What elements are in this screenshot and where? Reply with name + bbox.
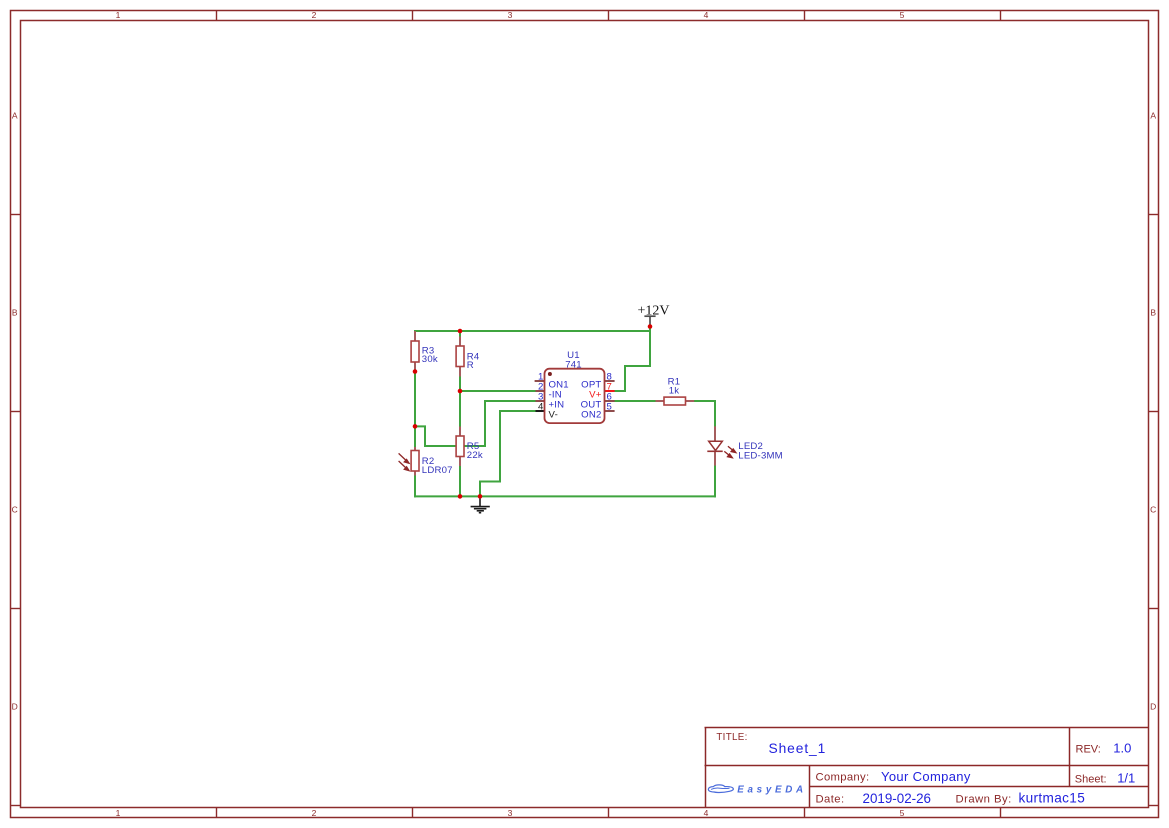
svg-text:A: A [1150,111,1156,121]
svg-text:LDR07: LDR07 [422,465,453,476]
+12V flag bar [644,315,655,317]
svg-text:LED-3MM: LED-3MM [738,451,783,462]
LED2 cathode lead [714,451,716,465]
R3 pin 2 lead [414,362,416,372]
op-amp body [545,369,605,423]
svg-text:D: D [12,702,18,712]
ground stem [479,496,481,506]
R3 body [411,341,419,362]
pin 1 stub [535,380,545,382]
svg-text:D: D [1150,702,1156,712]
LED emission arrows [724,446,736,457]
wire left vertical branch R3/R2 [414,331,416,496]
LED2 cathode bar [707,450,722,452]
R1 pin 1 lead [656,400,665,402]
ruler numbers top [116,10,905,20]
svg-text:B: B [1150,308,1156,318]
photoresistor R2 [399,447,453,476]
wire pin 6 OUT to R1 [615,400,657,402]
svg-text:4: 4 [704,10,709,20]
wire R1 to LED corner [694,401,715,427]
svg-text:5: 5 [900,10,905,20]
svg-text:5: 5 [607,402,613,413]
pin 3 stub [536,400,545,402]
svg-text:TITLE:: TITLE: [716,732,747,743]
ruler ticks bottom [217,808,1001,818]
svg-text:1.0: 1.0 [1113,741,1131,756]
ground bar 1 [471,506,490,508]
R2 pin 1 lead [414,447,416,451]
svg-text:1k: 1k [669,385,680,396]
wire pin 4 (V-) path [480,411,536,496]
resistor R5 [456,427,483,467]
svg-text:Drawn By:: Drawn By: [956,793,1012,805]
ground bar 4 [479,512,481,514]
wire bottom ground bus [415,495,715,497]
svg-text:1/1: 1/1 [1117,771,1135,786]
junction R2 top branch [413,424,418,429]
svg-text:Your Company: Your Company [881,769,971,784]
junction +12V [648,324,653,329]
op-amp U1 [535,350,615,423]
pin 6 stub [605,400,615,402]
svg-text:1: 1 [116,808,121,818]
junction pin2 branch [458,389,463,394]
R2 body [411,451,419,472]
ruler letters left [12,111,18,712]
resistor R3 [411,331,438,372]
svg-text:2: 2 [312,10,317,20]
svg-text:4: 4 [538,402,544,413]
LED LED2 [707,426,783,465]
title block [705,728,1149,808]
wire R4/R5 vertical branch [459,331,461,496]
R4 pin 2 lead [459,367,461,377]
svg-text:C: C [12,505,18,515]
svg-text:Sheet_1: Sheet_1 [769,741,827,756]
svg-text:22k: 22k [467,450,483,461]
svg-text:C: C [1150,505,1156,515]
resistor R1 [656,377,695,405]
R2 light arrows [399,453,409,470]
pin 2 stub [536,390,545,392]
EasyEDA logo [708,785,806,796]
junction ground [478,494,483,499]
ruler ticks right [1149,215,1159,806]
pin 7 stub [605,390,615,392]
+12V flag stem [649,316,651,326]
wire top power bus [415,330,650,332]
pin 8 stub [605,380,615,382]
svg-text:3: 3 [508,10,513,20]
wire LED bottom [714,466,716,497]
svg-text:B: B [12,308,18,318]
svg-text:Date:: Date: [816,793,845,805]
pin 1 marker dot [548,372,552,376]
svg-text:kurtmac15: kurtmac15 [1019,791,1086,806]
svg-text:3: 3 [508,808,513,818]
svg-text:30k: 30k [422,354,438,365]
R1 pin 2 lead [686,400,695,402]
ruler ticks left [10,215,20,806]
svg-text:4: 4 [704,808,709,818]
svg-text:+12V: +12V [637,303,669,318]
wire pin 2 (-IN) horizontal [460,390,536,392]
svg-text:5: 5 [900,808,905,818]
svg-text:EasyEDA: EasyEDA [737,785,806,796]
svg-text:ON2: ON2 [581,409,601,420]
pin 5 stub [605,410,615,412]
ground bar 3 [477,510,484,512]
R4 body [456,346,464,367]
svg-text:Sheet:: Sheet: [1075,774,1107,786]
junction R5 bottom [458,494,463,499]
junction R4 top [458,329,463,334]
svg-text:Company:: Company: [816,772,870,784]
R5 pin 2 lead [459,457,461,467]
svg-text:V-: V- [549,409,558,420]
LED2 anode lead [714,426,716,441]
R5 pin 1 lead [459,427,461,437]
svg-text:R: R [467,360,474,371]
pin 4 stub [536,410,545,412]
junction dots [413,324,653,499]
svg-text:2: 2 [312,808,317,818]
R3 pin 1 lead [414,331,416,341]
ground [471,496,490,512]
R1 body [664,397,686,405]
R2 pin 2 lead [414,471,416,476]
ruler letters right [1150,111,1156,712]
CIRCUIT-WIRES [415,327,715,496]
ruler ticks top [217,10,1001,20]
svg-text:741: 741 [565,360,582,371]
ruler numbers bottom [116,808,905,818]
R4 pin 1 lead [459,337,461,347]
ground bar 2 [474,508,487,510]
R5 body [456,436,464,457]
svg-text:1: 1 [116,10,121,20]
resistor R4 [456,337,480,377]
svg-text:REV:: REV: [1076,743,1101,755]
wire V+ to pin 7 [615,366,651,391]
LED2 triangle [709,441,723,450]
svg-text:A: A [12,111,18,121]
wire +12V vertical drop [649,327,651,366]
+12V net flag [637,303,669,326]
svg-text:2019-02-26: 2019-02-26 [863,791,932,806]
junction R3 bottom [413,369,418,374]
wire pin 3 (+IN) path [415,401,536,446]
